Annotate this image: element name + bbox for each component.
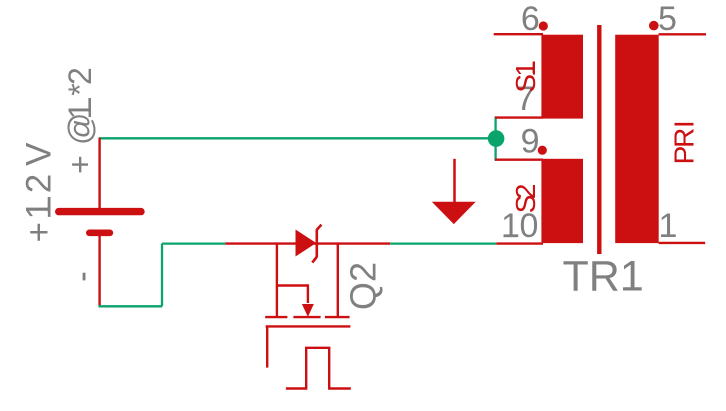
node junction dot — [488, 130, 505, 147]
svg-text:9: 9 — [521, 123, 540, 161]
Q2 right leg — [337, 244, 339, 318]
wire: battery top lead — [98, 138, 100, 209]
transformer TR1 — [494, 0, 706, 301]
wire: pin 9 stub — [495, 158, 543, 160]
Q2 gate plate — [266, 325, 351, 327]
battery positive plate — [55, 208, 145, 215]
battery negative plate — [86, 230, 113, 237]
Q2 left leg — [276, 244, 278, 318]
wire: green bottom horizontal from battery — [99, 305, 163, 307]
wire: green vertical riser — [161, 244, 163, 307]
svg-text:5: 5 — [658, 0, 677, 38]
wire: pin 7 stub — [495, 116, 543, 118]
svg-text:PRI: PRI — [669, 120, 700, 164]
battery +12V — [20, 67, 145, 306]
wire: top green net from battery + to junction — [99, 137, 496, 139]
Q2 body contact bar — [293, 316, 320, 318]
wire: pin 10 stub — [496, 242, 543, 244]
svg-text:6: 6 — [521, 0, 540, 38]
Q2 gate lead — [266, 326, 268, 367]
Q2 body branch wire — [277, 286, 308, 304]
Q2 rail (drain-source horizontal) — [225, 242, 390, 244]
wire: pin 5 stub — [659, 33, 706, 35]
body zener diode of Q2 — [296, 225, 322, 263]
wire: pin 1 stub — [659, 242, 706, 244]
svg-text:S1: S1 — [510, 61, 541, 92]
wire: green between Q2 and pin 10 — [390, 242, 496, 244]
wire: green junction vertical — [494, 116, 496, 160]
Q2 drain contact bar — [265, 316, 287, 318]
winding PRI — [615, 35, 659, 243]
wire: green horizontal to Q2 drain — [162, 242, 225, 244]
ground arrow power symbol — [432, 159, 476, 224]
transistor Q2 — [225, 225, 390, 389]
Q2 body arrow — [302, 304, 314, 317]
winding S2 — [541, 159, 583, 243]
svg-text:Q2: Q2 — [343, 262, 384, 310]
svg-text:+12V: +12V — [20, 142, 59, 243]
svg-text:S2: S2 — [510, 184, 541, 214]
polarity dot pin 5 — [649, 21, 659, 31]
svg-text:TR1: TR1 — [563, 253, 644, 301]
wire: pin 6 stub — [494, 33, 543, 35]
label minus — [83, 273, 86, 281]
svg-text:+@1*2: +@1*2 — [62, 67, 98, 174]
core line — [597, 25, 601, 254]
winding S1 — [541, 35, 583, 119]
polarity dot pin 6 — [539, 21, 548, 30]
wire: battery bottom lead — [98, 236, 100, 306]
gate pulse waveform — [286, 348, 351, 389]
polarity dot pin 9 — [538, 146, 547, 155]
Q2 source contact bar — [325, 316, 350, 318]
svg-text:1: 1 — [659, 207, 678, 245]
